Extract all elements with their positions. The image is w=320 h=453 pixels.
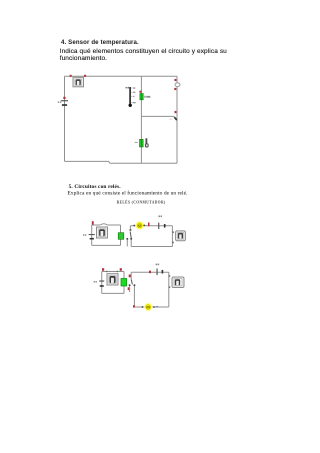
wire: left loop rectangle	[91, 225, 93, 245]
connection nubs on right wire	[172, 231, 173, 233]
node dot (red) above variable resistor	[139, 91, 141, 93]
svg-text:Indica qué elementos constituy: Indica qué elementos constituyen el circ…	[60, 48, 227, 55]
wire: bottom with step	[65, 161, 178, 163]
battery B2 on left wire of left loop	[83, 234, 95, 239]
switch mark (blue) right of lamp	[156, 306, 158, 307]
wire: left side	[64, 76, 66, 161]
battery B1 on left wire	[58, 97, 68, 106]
node dot (red) at transistor collector	[175, 111, 177, 113]
value label of VR1 (smudge)	[144, 96, 145, 98]
wire: middle vertical	[140, 76, 142, 163]
switch box S1 on top wire	[73, 77, 84, 87]
node dot (red) top-right corner	[120, 268, 122, 271]
svg-text:RELÉS (CONMUTADOR): RELÉS (CONMUTADOR)	[117, 200, 166, 205]
relay contact of circuit 3 (closed)	[129, 272, 136, 307]
node dot (red) right of box	[84, 75, 86, 77]
lamp L3 (lit) on bottom wire of right loop	[142, 303, 155, 312]
connection nubs on right wire	[169, 275, 170, 277]
relay switch box (right of circuit 3)	[172, 277, 184, 288]
svg-text:5. Circuitos con relés.: 5. Circuitos con relés.	[69, 184, 122, 190]
node dot (red) top-left of left loop	[92, 221, 94, 224]
wire: right loop bottom	[131, 246, 172, 248]
wire: right loop right side	[168, 272, 170, 307]
wire: push switch arc	[100, 224, 107, 225]
wire: right loop bottom	[134, 306, 168, 308]
lamp L1 on right wire	[175, 83, 180, 87]
thermometer indicator	[125, 87, 135, 107]
relay contact of circuit 2	[126, 226, 132, 247]
node dot (red) above lamp	[174, 79, 176, 81]
wire: right loop right side	[171, 226, 173, 247]
svg-text:4. Sensor de temperatura.: 4. Sensor de temperatura.	[61, 39, 139, 46]
relay coil K2 (green, energised) on right wire of left loop	[121, 279, 127, 287]
battery B4 on left wire of left loop	[94, 281, 105, 287]
node dot (red) top-left corner	[102, 268, 104, 271]
variable resistor VR1 (green) on middle wire	[140, 94, 143, 100]
relay switch box (right of circuit 2)	[176, 231, 186, 241]
node dot (red) left of box	[70, 75, 72, 77]
battery B5 on top wire of right loop	[156, 264, 164, 276]
node dot (red) on contact throw	[128, 287, 130, 290]
battery B3 on top wire of right loop	[158, 216, 165, 230]
svg-text:Explica en qué consiste el fun: Explica en qué consiste el funcionamient…	[67, 189, 188, 196]
relay coil K1 (green) on right wire of left loop	[118, 233, 124, 240]
svg-text:funcionamiento.: funcionamiento.	[60, 55, 107, 62]
thermistor TH1 label dash	[135, 141, 138, 144]
transistor Q1 emitter stroke	[174, 117, 177, 120]
wire: top side	[65, 75, 178, 77]
node dot (red) on top wire left of battery	[149, 271, 151, 274]
wire: left loop rectangle	[101, 272, 103, 294]
node dot (red) on bottom wire near corner	[133, 305, 135, 307]
wire: right loop top	[130, 225, 172, 227]
lamp L2 (lit) on top wire of right loop	[133, 221, 145, 230]
wire: transistor base horizontal	[141, 115, 174, 117]
push switch box of circuit 3	[107, 274, 118, 285]
node dot (red) on contact common	[129, 275, 131, 278]
push switch box of circuit 2	[97, 227, 108, 238]
wire: right side	[176, 76, 178, 163]
wire: right loop top	[131, 271, 169, 273]
node mark (red) right of lamp	[148, 223, 150, 227]
thermometer icon of TH1	[145, 138, 149, 147]
thermistor TH1 (green) on middle wire	[140, 139, 144, 147]
switch terminals (nubs) on top wire	[106, 271, 107, 273]
node dot (red) below lamp	[174, 88, 176, 90]
